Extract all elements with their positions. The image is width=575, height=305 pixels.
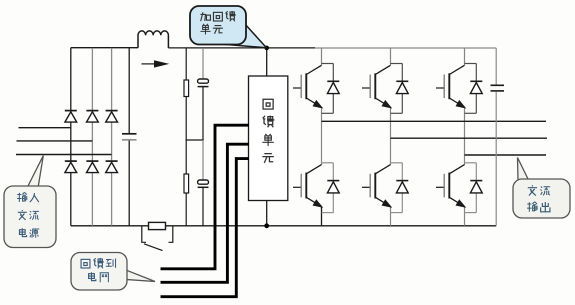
input phase line T xyxy=(16,154,112,156)
inverter leg 2 trunk xyxy=(390,48,392,165)
thick feedback wire 3 xyxy=(161,159,250,297)
diode D3 xyxy=(106,111,118,123)
rectifier leg 2 wire xyxy=(91,48,93,226)
callout "加回馈单元" bubble xyxy=(190,6,246,45)
input phase line S xyxy=(17,140,93,142)
bus capacitor C3 branch lower xyxy=(202,140,204,180)
capacitor C1 plates xyxy=(122,133,137,135)
rectifier leg 3 wire xyxy=(111,48,113,226)
top DC rail right segment xyxy=(315,47,496,49)
node dot top rail xyxy=(264,46,269,51)
callout text 输入交流电源 xyxy=(17,192,39,237)
rectifier leg 1 wire xyxy=(70,48,72,226)
top DC rail left segment xyxy=(71,47,138,49)
bypass switch S1 xyxy=(142,226,146,243)
diode D1 xyxy=(65,111,77,123)
callout text 交流输出 xyxy=(527,185,550,212)
IGBT Q6 + diode xyxy=(436,163,482,213)
brake resistor R3 on bottom rail xyxy=(149,222,166,229)
thick feedback wire 1 xyxy=(161,125,250,269)
capacitor C4 plates xyxy=(491,84,505,86)
bottom DC rail right segment xyxy=(166,225,497,227)
callout "交流输出" bubble xyxy=(513,179,570,218)
callout "回馈到电网" tail xyxy=(126,270,155,282)
feedback unit box U1 xyxy=(249,76,288,201)
diode D6 xyxy=(106,161,118,173)
IGBT Q3 + diode xyxy=(436,64,482,114)
callout "交流输出" tail xyxy=(518,158,529,181)
balancing resistor R1 branch upper xyxy=(185,48,187,80)
bus capacitor C2 branch upper xyxy=(202,48,204,79)
diode D5 xyxy=(86,161,98,173)
current flow arrow xyxy=(142,63,158,65)
capacitor C1 wire bottom xyxy=(128,141,130,226)
output phase line U xyxy=(322,120,547,122)
output phase line V xyxy=(391,137,548,139)
feedback unit top lead xyxy=(266,48,268,76)
callout "输入交流电源" tail xyxy=(27,156,43,188)
IGBT Q4 + diode xyxy=(293,163,339,213)
callout "输入交流电源" bubble xyxy=(4,186,56,248)
IGBT Q2 + diode xyxy=(362,64,408,114)
midpoint tie wire xyxy=(186,139,204,141)
feedback unit bottom lead xyxy=(266,201,268,226)
balancing resistor R2 branch lower xyxy=(185,140,187,174)
diode D2 xyxy=(86,111,98,123)
callout text 加回馈单元 xyxy=(200,11,235,34)
inverter leg 1 trunk xyxy=(321,48,323,165)
thick feedback wire 2 xyxy=(161,144,250,282)
output phase line W xyxy=(465,154,547,156)
IGBT Q1 + diode xyxy=(293,64,339,114)
DC link capacitor C1 wire top xyxy=(128,48,130,134)
input phase line R xyxy=(19,127,71,129)
callout text 回馈到电网 xyxy=(81,258,115,282)
diode D4 xyxy=(65,161,77,173)
bottom DC rail left segment xyxy=(71,225,149,227)
capacitor C4 wire bottom xyxy=(495,92,497,226)
output capacitor C4 wire top xyxy=(495,48,497,85)
inductor L1 xyxy=(138,31,168,48)
node dot bottom rail at feedback lead xyxy=(264,223,269,228)
callout "加回馈单元" tail xyxy=(221,24,267,48)
IGBT Q5 + diode xyxy=(362,163,408,213)
top DC rail middle segment xyxy=(168,47,315,49)
callout "回馈到电网" bubble xyxy=(71,253,127,291)
inverter leg 3 trunk xyxy=(464,48,466,165)
feedback unit label xyxy=(262,99,274,163)
